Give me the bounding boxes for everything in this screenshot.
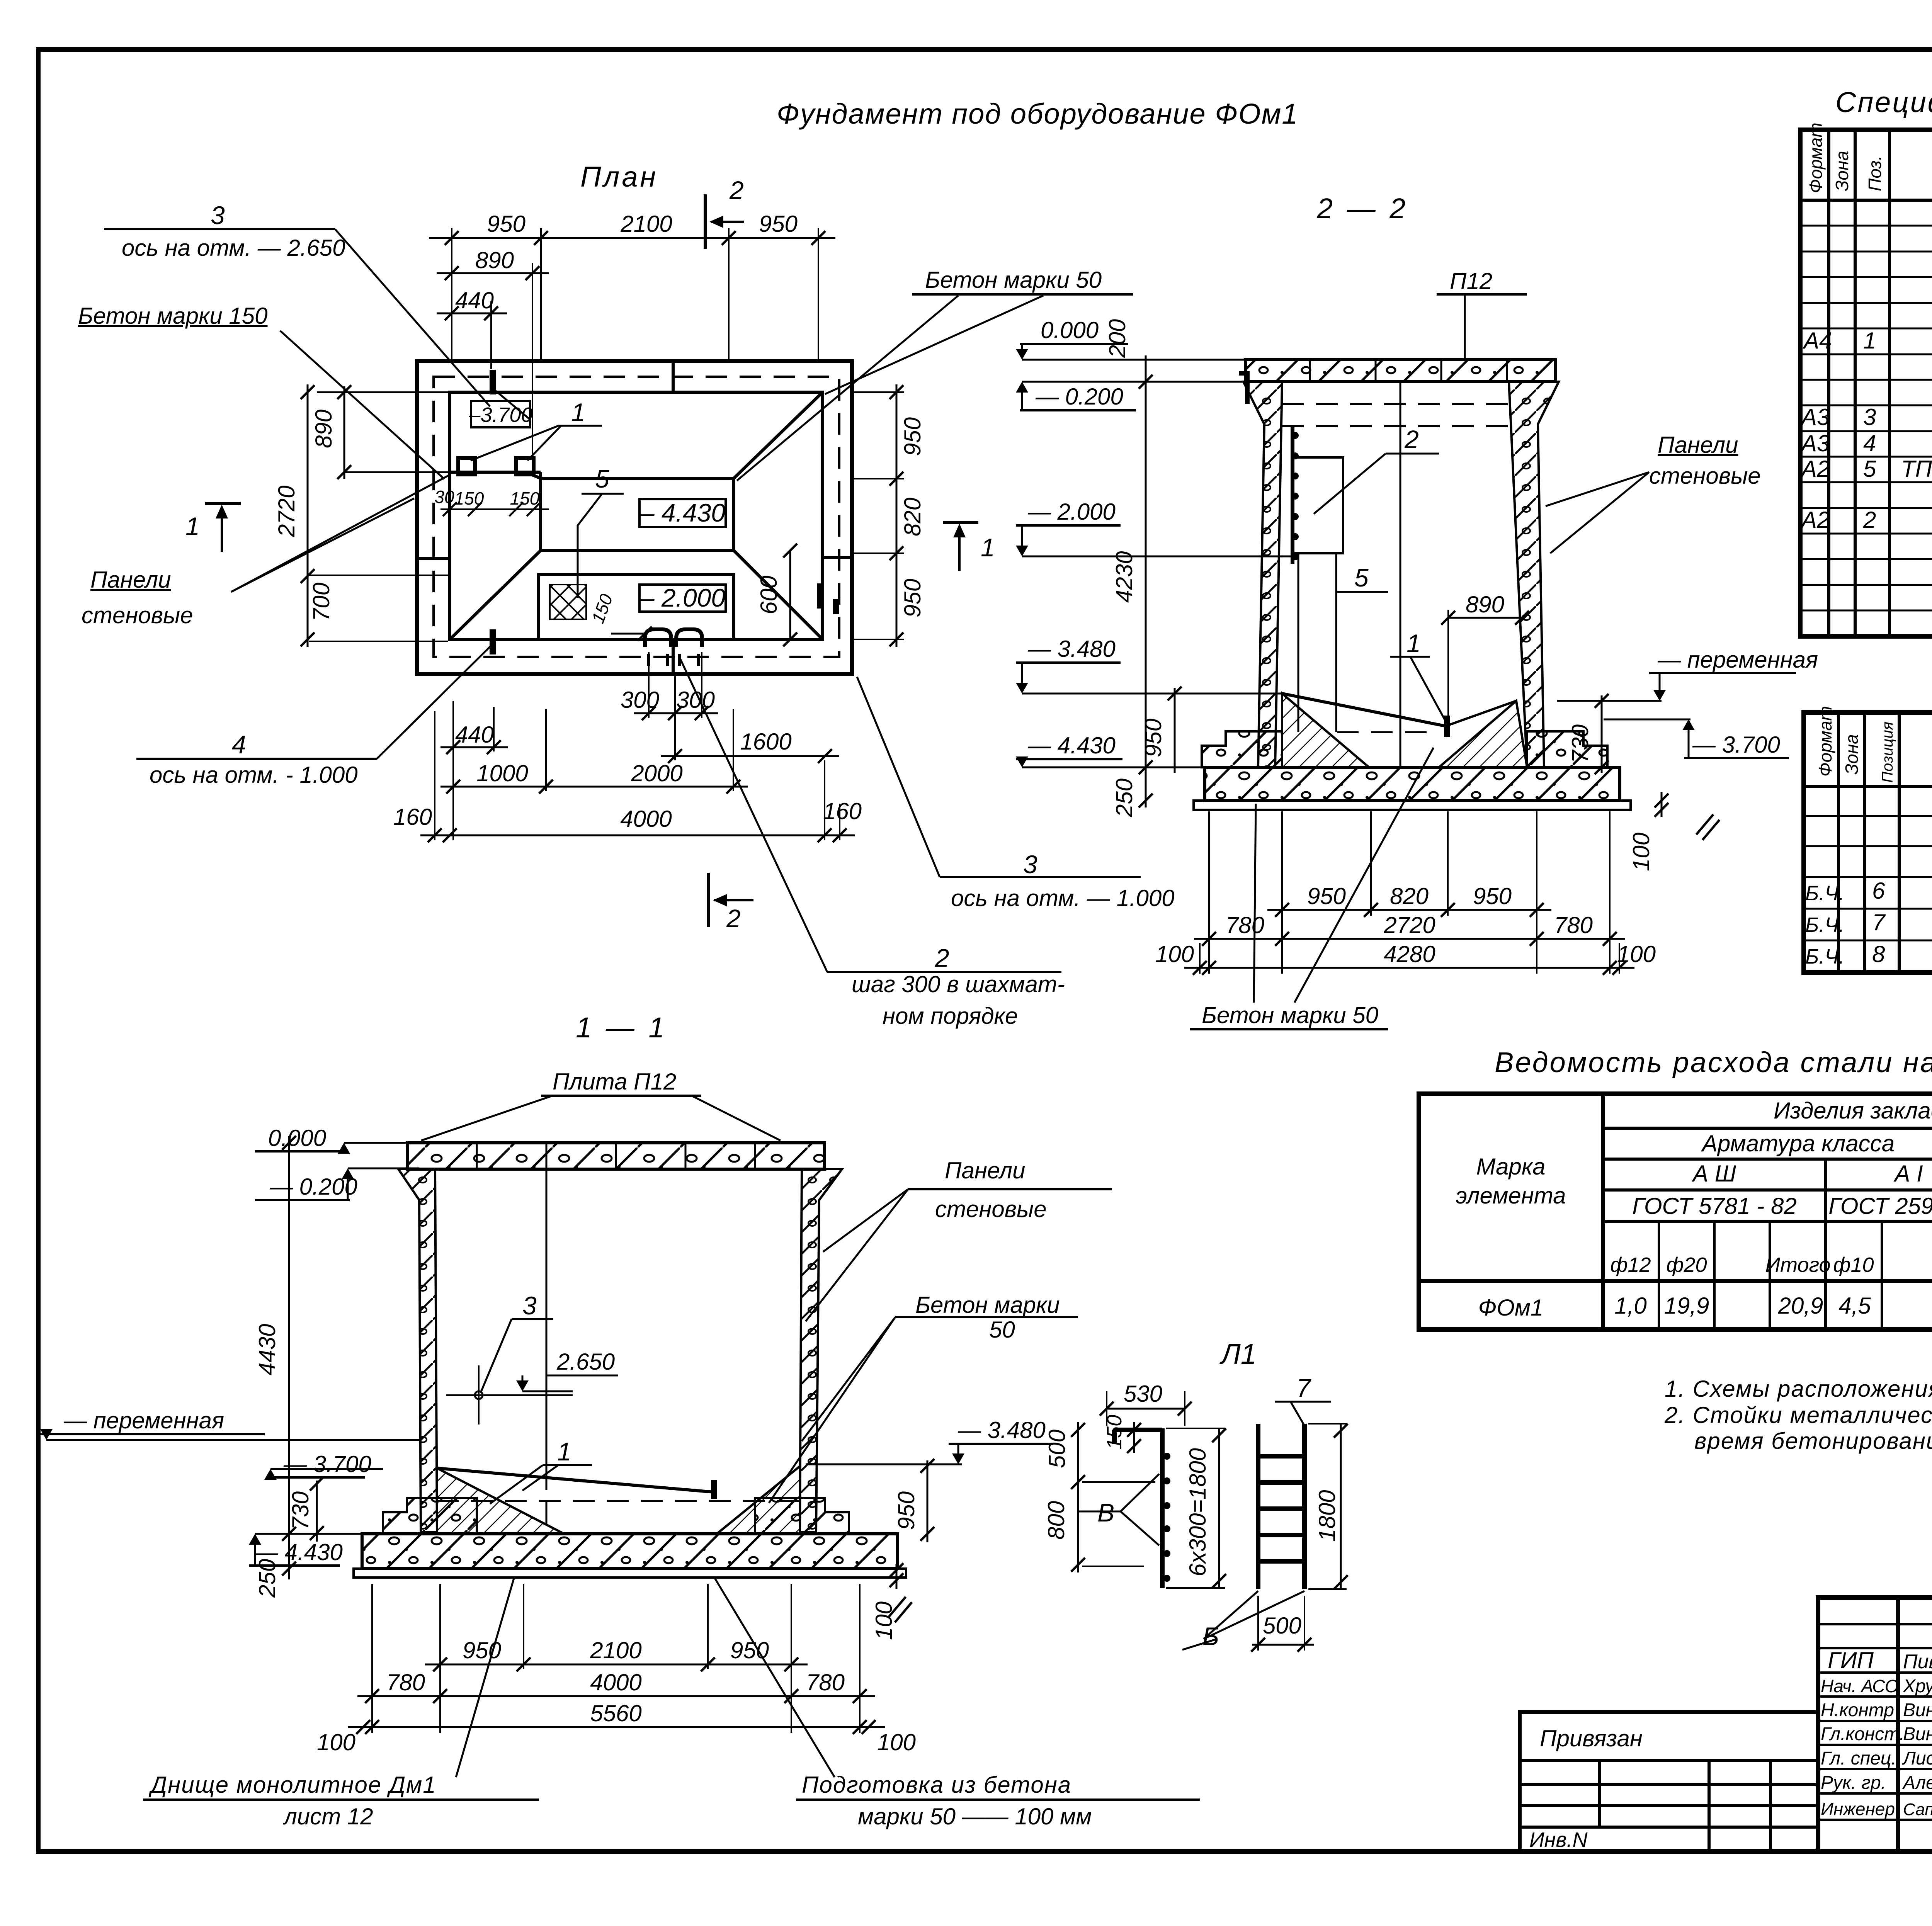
svg-text:6х300=1800: 6х300=1800	[1185, 1448, 1211, 1576]
svg-text:Н.контр: Н.контр	[1821, 1700, 1894, 1720]
svg-text:А I: А I	[1893, 1161, 1923, 1187]
svg-text:780: 780	[806, 1669, 845, 1695]
svg-text:30: 30	[434, 487, 454, 507]
svg-text:100: 100	[1617, 941, 1656, 967]
svg-text:1: 1	[557, 1437, 571, 1466]
svg-text:890: 890	[1466, 592, 1504, 617]
svg-text:Бетон марки 50: Бетон марки 50	[1202, 1002, 1378, 1028]
hatched pocket	[550, 585, 586, 619]
svg-text:100: 100	[1628, 833, 1654, 871]
svg-text:2: 2	[729, 176, 744, 204]
top slab	[1245, 360, 1555, 382]
svg-text:2720: 2720	[1383, 912, 1435, 938]
bottom dims	[1184, 910, 1634, 968]
center joint	[1400, 382, 1401, 767]
blinding	[354, 1569, 906, 1578]
svg-text:4000: 4000	[620, 806, 672, 832]
svg-text:950: 950	[893, 1491, 919, 1530]
svg-text:250: 250	[254, 1559, 280, 1598]
svg-text:— 3.480: — 3.480	[957, 1417, 1046, 1443]
svg-text:530: 530	[1124, 1381, 1162, 1407]
right dim stack	[896, 384, 898, 647]
svg-text:Панели: Панели	[90, 567, 171, 593]
svg-text:2: 2	[726, 904, 741, 933]
PLAN VIEW	[78, 161, 1175, 1029]
svg-text:— 0.200: — 0.200	[1035, 384, 1123, 410]
svg-text:3: 3	[1023, 850, 1037, 879]
svg-text:План: План	[580, 161, 658, 193]
svg-text:4230: 4230	[1111, 551, 1137, 603]
svg-text:П12: П12	[1450, 268, 1492, 294]
svg-text:Фундамент под оборудование: Фундамент под оборудование ФОм1	[777, 98, 1298, 130]
svg-text:Б.Ч.: Б.Ч.	[1805, 913, 1845, 937]
svg-text:780: 780	[1226, 912, 1264, 938]
hidden slab edges	[1282, 403, 1509, 405]
dim 890 inside	[1448, 617, 1522, 619]
svg-text:Панели: Панели	[1658, 432, 1738, 458]
svg-text:Формат: Формат	[1806, 122, 1826, 193]
svg-text:стеновые: стеновые	[82, 602, 193, 628]
svg-text:Сапрошина: Сапрошина	[1903, 1800, 1932, 1819]
svg-text:Днище монолитное Дм1: Днище монолитное Дм1	[148, 1772, 437, 1798]
svg-text:2100: 2100	[590, 1637, 641, 1663]
svg-text:730: 730	[1567, 724, 1593, 763]
svg-text:1: 1	[1406, 629, 1421, 658]
svg-text:— 3.700: — 3.700	[283, 1451, 371, 1477]
svg-text:ф12: ф12	[1610, 1253, 1651, 1277]
svg-text:Зона: Зона	[1832, 151, 1852, 191]
svg-text:50: 50	[989, 1317, 1015, 1343]
plan walls	[417, 361, 852, 674]
svg-text:2720: 2720	[274, 486, 299, 537]
svg-text:ось на отм. — 1.000: ось на отм. — 1.000	[951, 885, 1175, 911]
svg-text:150: 150	[1103, 1415, 1126, 1450]
svg-text:ф10: ф10	[1833, 1253, 1874, 1277]
dim 1800	[1340, 1424, 1342, 1589]
left wall	[398, 1169, 437, 1532]
svg-text:0.000: 0.000	[1041, 317, 1099, 343]
svg-text:950: 950	[900, 417, 925, 456]
svg-text:– 2.000: – 2.000	[640, 583, 725, 612]
svg-text:950: 950	[1140, 719, 1166, 757]
svg-text:4: 4	[1863, 430, 1876, 456]
svg-text:5: 5	[1354, 563, 1369, 592]
svg-text:440: 440	[455, 287, 494, 313]
svg-text:ном порядке: ном порядке	[883, 1003, 1018, 1029]
svg-text:Бетон марки 150: Бетон марки 150	[78, 303, 267, 329]
svg-text:780: 780	[1554, 912, 1593, 938]
svg-text:4000: 4000	[590, 1669, 641, 1695]
blinding layer	[1194, 801, 1631, 810]
svg-text:0.000: 0.000	[268, 1125, 326, 1151]
svg-text:100: 100	[1155, 941, 1194, 967]
svg-text:1: 1	[981, 533, 995, 562]
svg-text:4,5: 4,5	[1838, 1293, 1871, 1319]
svg-text:Зона: Зона	[1842, 734, 1862, 775]
svg-text:–3.700: –3.700	[468, 403, 532, 427]
LADDER L1 DETAIL	[1043, 1338, 1348, 1652]
svg-text:– 4.430: – 4.430	[640, 498, 725, 527]
floor wedges	[1282, 694, 1369, 767]
svg-text:Поз.: Поз.	[1865, 155, 1885, 191]
svg-text:5560: 5560	[590, 1700, 641, 1726]
spec table 2	[1804, 706, 1932, 972]
svg-text:Б.Ч.: Б.Ч.	[1805, 882, 1845, 905]
SECTION 2-2	[1016, 192, 1818, 1029]
svg-text:Бетон марки 50: Бетон марки 50	[925, 267, 1102, 293]
svg-text:элемента: элемента	[1456, 1183, 1566, 1209]
svg-text:Итого: Итого	[1765, 1253, 1830, 1277]
bottom slab	[1205, 767, 1620, 801]
spec table 1	[1800, 122, 1932, 636]
right wall	[1509, 382, 1559, 767]
svg-text:А3: А3	[1800, 430, 1830, 456]
svg-text:6: 6	[1872, 878, 1885, 904]
svg-text:Б.Ч.: Б.Ч.	[1805, 945, 1845, 968]
svg-text:Марка: Марка	[1476, 1154, 1545, 1180]
svg-text:Рук. гр.: Рук. гр.	[1821, 1773, 1886, 1793]
svg-text:1800: 1800	[1314, 1490, 1340, 1542]
svg-text:200: 200	[1104, 319, 1130, 358]
footings	[383, 1498, 477, 1534]
svg-text:Ведомость расхода стали: Ведомость расхода стали на элемент, кг	[1495, 1046, 1932, 1078]
svg-text:— 4.430: — 4.430	[1027, 733, 1116, 758]
svg-text:1,0: 1,0	[1614, 1293, 1646, 1319]
6x300 dim	[1218, 1428, 1220, 1588]
svg-text:950: 950	[487, 211, 526, 237]
svg-text:950: 950	[1473, 883, 1512, 909]
svg-text:Панели: Панели	[945, 1158, 1025, 1183]
interior joint	[546, 1169, 548, 1468]
svg-text:Гл.конст.: Гл.конст.	[1821, 1724, 1905, 1744]
right wall	[800, 1169, 842, 1532]
svg-text:— переменная: — переменная	[1657, 647, 1818, 673]
SECTION 1-1	[39, 1011, 1200, 1829]
svg-text:шаг 300 в шахмат-: шаг 300 в шахмат-	[852, 971, 1065, 997]
top dim stack	[429, 238, 835, 313]
svg-text:Винклер: Винклер	[1903, 1724, 1932, 1744]
svg-text:1600: 1600	[740, 729, 791, 755]
svg-text:1: 1	[1863, 328, 1876, 354]
svg-text:600: 600	[756, 576, 782, 614]
svg-text:ФОм1: ФОм1	[1478, 1295, 1544, 1321]
svg-text:1. Схемы расположения пан: 1. Схемы расположения панелей стен и пли…	[1665, 1376, 1932, 1402]
svg-text:4280: 4280	[1384, 941, 1435, 967]
side view	[1160, 1428, 1165, 1588]
svg-text:2. Стойки металлических п: 2. Стойки металлических площадок на отм.…	[1664, 1402, 1932, 1428]
svg-text:820: 820	[900, 498, 925, 536]
svg-text:2: 2	[1404, 425, 1419, 454]
svg-text:— 3.700: — 3.700	[1692, 732, 1780, 758]
svg-text:780: 780	[386, 1669, 425, 1695]
svg-text:2: 2	[1863, 507, 1876, 533]
section marks	[704, 194, 707, 249]
svg-text:ГОСТ 5781 - 82: ГОСТ 5781 - 82	[1632, 1193, 1797, 1219]
svg-text:150: 150	[588, 591, 617, 626]
svg-text:3: 3	[211, 201, 225, 229]
steel consumption table	[1419, 1094, 1932, 1329]
svg-text:ось на отм. — 2.650: ось на отм. — 2.650	[122, 235, 345, 261]
svg-text:Бетон марки: Бетон марки	[915, 1292, 1060, 1318]
svg-text:Винклер: Винклер	[1903, 1700, 1932, 1720]
svg-text:3: 3	[522, 1291, 537, 1320]
svg-text:А3: А3	[1800, 404, 1830, 430]
svg-text:890: 890	[311, 410, 337, 448]
svg-text:Инженер: Инженер	[1821, 1799, 1895, 1819]
bottom dim stack	[420, 713, 855, 835]
svg-text:ось на отм. - 1.000: ось на отм. - 1.000	[150, 762, 358, 788]
svg-text:ГИП: ГИП	[1828, 1647, 1874, 1673]
svg-text:Арматура класса: Арматура класса	[1701, 1130, 1895, 1156]
svg-text:— 2.000: — 2.000	[1027, 499, 1116, 525]
svg-text:300: 300	[621, 687, 659, 713]
left wall	[1243, 382, 1282, 767]
svg-text:700: 700	[308, 583, 334, 621]
svg-text:лист 12: лист 12	[283, 1804, 373, 1829]
svg-text:Плита П12: Плита П12	[553, 1069, 676, 1095]
svg-text:950: 950	[1307, 883, 1346, 909]
svg-text:500: 500	[1263, 1613, 1301, 1639]
svg-text:1: 1	[571, 398, 585, 427]
svg-text:7: 7	[1296, 1374, 1311, 1402]
svg-text:А2: А2	[1800, 456, 1830, 482]
svg-text:440: 440	[455, 722, 494, 748]
floor wedges	[437, 1468, 564, 1534]
svg-text:820: 820	[1390, 883, 1429, 909]
axis ticks	[490, 370, 496, 394]
svg-text:Хрупало: Хрупало	[1903, 1676, 1932, 1697]
svg-text:160: 160	[393, 804, 432, 830]
svg-text:2 — 2: 2 — 2	[1316, 192, 1408, 224]
svg-text:1 — 1: 1 — 1	[576, 1011, 667, 1044]
svg-text:20,9: 20,9	[1778, 1293, 1823, 1319]
bottom slab	[362, 1534, 898, 1569]
svg-text:ГОСТ 2590-71*: ГОСТ 2590-71*	[1828, 1193, 1932, 1219]
dim 600	[789, 551, 791, 639]
svg-text:Алехова: Алехова	[1902, 1773, 1932, 1793]
svg-text:500: 500	[1044, 1430, 1070, 1468]
top slab	[407, 1143, 825, 1169]
privyazan block	[1520, 1712, 1818, 1851]
svg-text:Формат: Формат	[1815, 706, 1835, 777]
svg-text:19,9: 19,9	[1664, 1293, 1709, 1319]
pit	[541, 478, 734, 551]
gland tabs	[645, 629, 671, 647]
svg-text:800: 800	[1043, 1501, 1069, 1540]
svg-text:3: 3	[1863, 404, 1876, 430]
embedded squares (item 1)	[458, 458, 475, 474]
svg-text:950: 950	[759, 211, 798, 237]
svg-text:150: 150	[510, 488, 540, 508]
svg-text:Пивторак: Пивторак	[1903, 1651, 1932, 1673]
svg-text:160: 160	[823, 798, 862, 824]
svg-text:1000: 1000	[476, 760, 528, 786]
svg-text:100: 100	[317, 1729, 355, 1755]
svg-text:— 3.480: — 3.480	[1027, 636, 1116, 662]
svg-text:730: 730	[287, 1491, 313, 1530]
svg-text:В: В	[1097, 1498, 1114, 1527]
svg-text:А2: А2	[1800, 507, 1830, 533]
svg-text:Позиция: Позиция	[1879, 722, 1896, 783]
svg-text:2: 2	[935, 943, 949, 972]
svg-text:Подготовка из бетона: Подготовка из бетона	[802, 1772, 1071, 1798]
front view	[1256, 1424, 1260, 1589]
svg-text:2000: 2000	[631, 760, 682, 786]
svg-text:А Ш: А Ш	[1692, 1161, 1736, 1187]
svg-text:7: 7	[1872, 909, 1886, 935]
svg-text:5: 5	[1863, 456, 1876, 482]
bottom dims	[348, 1664, 885, 1727]
svg-text:Инв.N: Инв.N	[1529, 1828, 1588, 1851]
svg-text:Лисичкин: Лисичкин	[1902, 1748, 1932, 1769]
svg-text:950: 950	[900, 579, 925, 617]
svg-text:Спецификация фундамента п: Спецификация фундамента под оборудование…	[1835, 86, 1932, 118]
svg-text:Гл. спец.: Гл. спец.	[1821, 1748, 1896, 1769]
svg-text:5: 5	[595, 464, 609, 493]
svg-text:4: 4	[232, 730, 246, 759]
svg-text:ТП: ТП	[1901, 456, 1932, 482]
left dim stack	[344, 386, 345, 479]
svg-text:А4: А4	[1803, 328, 1832, 354]
title block	[1818, 1598, 1932, 1853]
svg-text:2.650: 2.650	[556, 1349, 615, 1375]
svg-text:Нач. АСО: Нач. АСО	[1821, 1676, 1899, 1696]
svg-text:Л1: Л1	[1219, 1338, 1257, 1370]
footings	[1202, 731, 1282, 767]
svg-text:100: 100	[877, 1729, 916, 1755]
svg-text:4430: 4430	[254, 1324, 280, 1375]
svg-text:марки 50 —— 100 мм: марки 50 —— 100 мм	[858, 1804, 1092, 1829]
metal platform (item 5)	[1291, 427, 1294, 564]
svg-text:стеновые: стеновые	[1649, 463, 1761, 489]
svg-text:ф20: ф20	[1666, 1253, 1707, 1277]
svg-text:стеновые: стеновые	[935, 1196, 1047, 1222]
svg-text:8: 8	[1872, 941, 1885, 967]
svg-text:— переменная: — переменная	[63, 1408, 224, 1433]
svg-text:Изделия закладные: Изделия закладные	[1774, 1098, 1932, 1124]
svg-text:1: 1	[185, 512, 200, 541]
lower room	[539, 575, 734, 639]
svg-text:100: 100	[871, 1601, 897, 1640]
elevation boxes	[471, 401, 530, 427]
vertical dims left	[288, 1136, 290, 1542]
svg-text:Привязан: Привязан	[1540, 1725, 1643, 1751]
svg-text:250: 250	[1111, 779, 1137, 818]
svg-text:2100: 2100	[620, 211, 672, 237]
svg-text:время бетонирования днища: время бетонирования днища Дм 1.	[1694, 1428, 1932, 1454]
svg-text:890: 890	[475, 247, 514, 273]
dims side view	[1107, 1408, 1185, 1410]
